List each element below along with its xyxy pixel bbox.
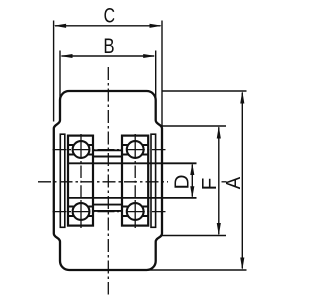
component: left hub/bearing block outline xyxy=(68,136,93,226)
wire: extension lines for F xyxy=(162,126,226,236)
centerline: vertical wheel axis xyxy=(107,67,109,295)
bearing races: top row horizontal race lines xyxy=(68,145,148,216)
bearing races: bottom row horizontal race lines xyxy=(68,215,93,217)
centerline: left ball column axis xyxy=(80,134,82,228)
ball: bottom-right bearing ball xyxy=(127,203,144,220)
svg-text:B: B xyxy=(103,35,114,58)
component: right hub/bearing block outline xyxy=(122,136,148,226)
wire: spacer lines between bearings xyxy=(93,149,122,151)
ball: top-right bearing ball xyxy=(127,141,144,158)
wire: extension lines for C xyxy=(54,21,162,128)
svg-text:A: A xyxy=(222,177,245,190)
svg-text:C: C xyxy=(104,5,115,28)
wire: bore line top (D top extension) xyxy=(68,162,197,164)
node: wheel body outline xyxy=(54,91,162,270)
wire: dimension line C xyxy=(54,24,162,28)
centerline: horizontal axle axis xyxy=(38,181,168,183)
centerline: top ball row axis xyxy=(53,149,166,151)
ball: top-left bearing ball xyxy=(73,141,90,158)
wire: dimension line A xyxy=(240,91,244,270)
wire: dimension line D xyxy=(190,163,194,198)
wire: bore line bottom (D bottom extension) xyxy=(68,197,197,199)
centerline: bottom ball row axis xyxy=(53,211,166,213)
wire: dimension line F xyxy=(217,126,221,236)
svg-text:D: D xyxy=(170,174,193,189)
component: right washer bar xyxy=(151,134,156,227)
wire: dimension line B xyxy=(60,54,156,58)
wire: extension lines for A xyxy=(147,91,247,270)
ball: bottom-left bearing ball xyxy=(73,203,90,220)
wire: extension lines for B xyxy=(60,51,156,121)
svg-text:F: F xyxy=(198,178,221,191)
component: left washer bar xyxy=(60,134,65,227)
centerline: right ball column axis xyxy=(134,134,136,228)
